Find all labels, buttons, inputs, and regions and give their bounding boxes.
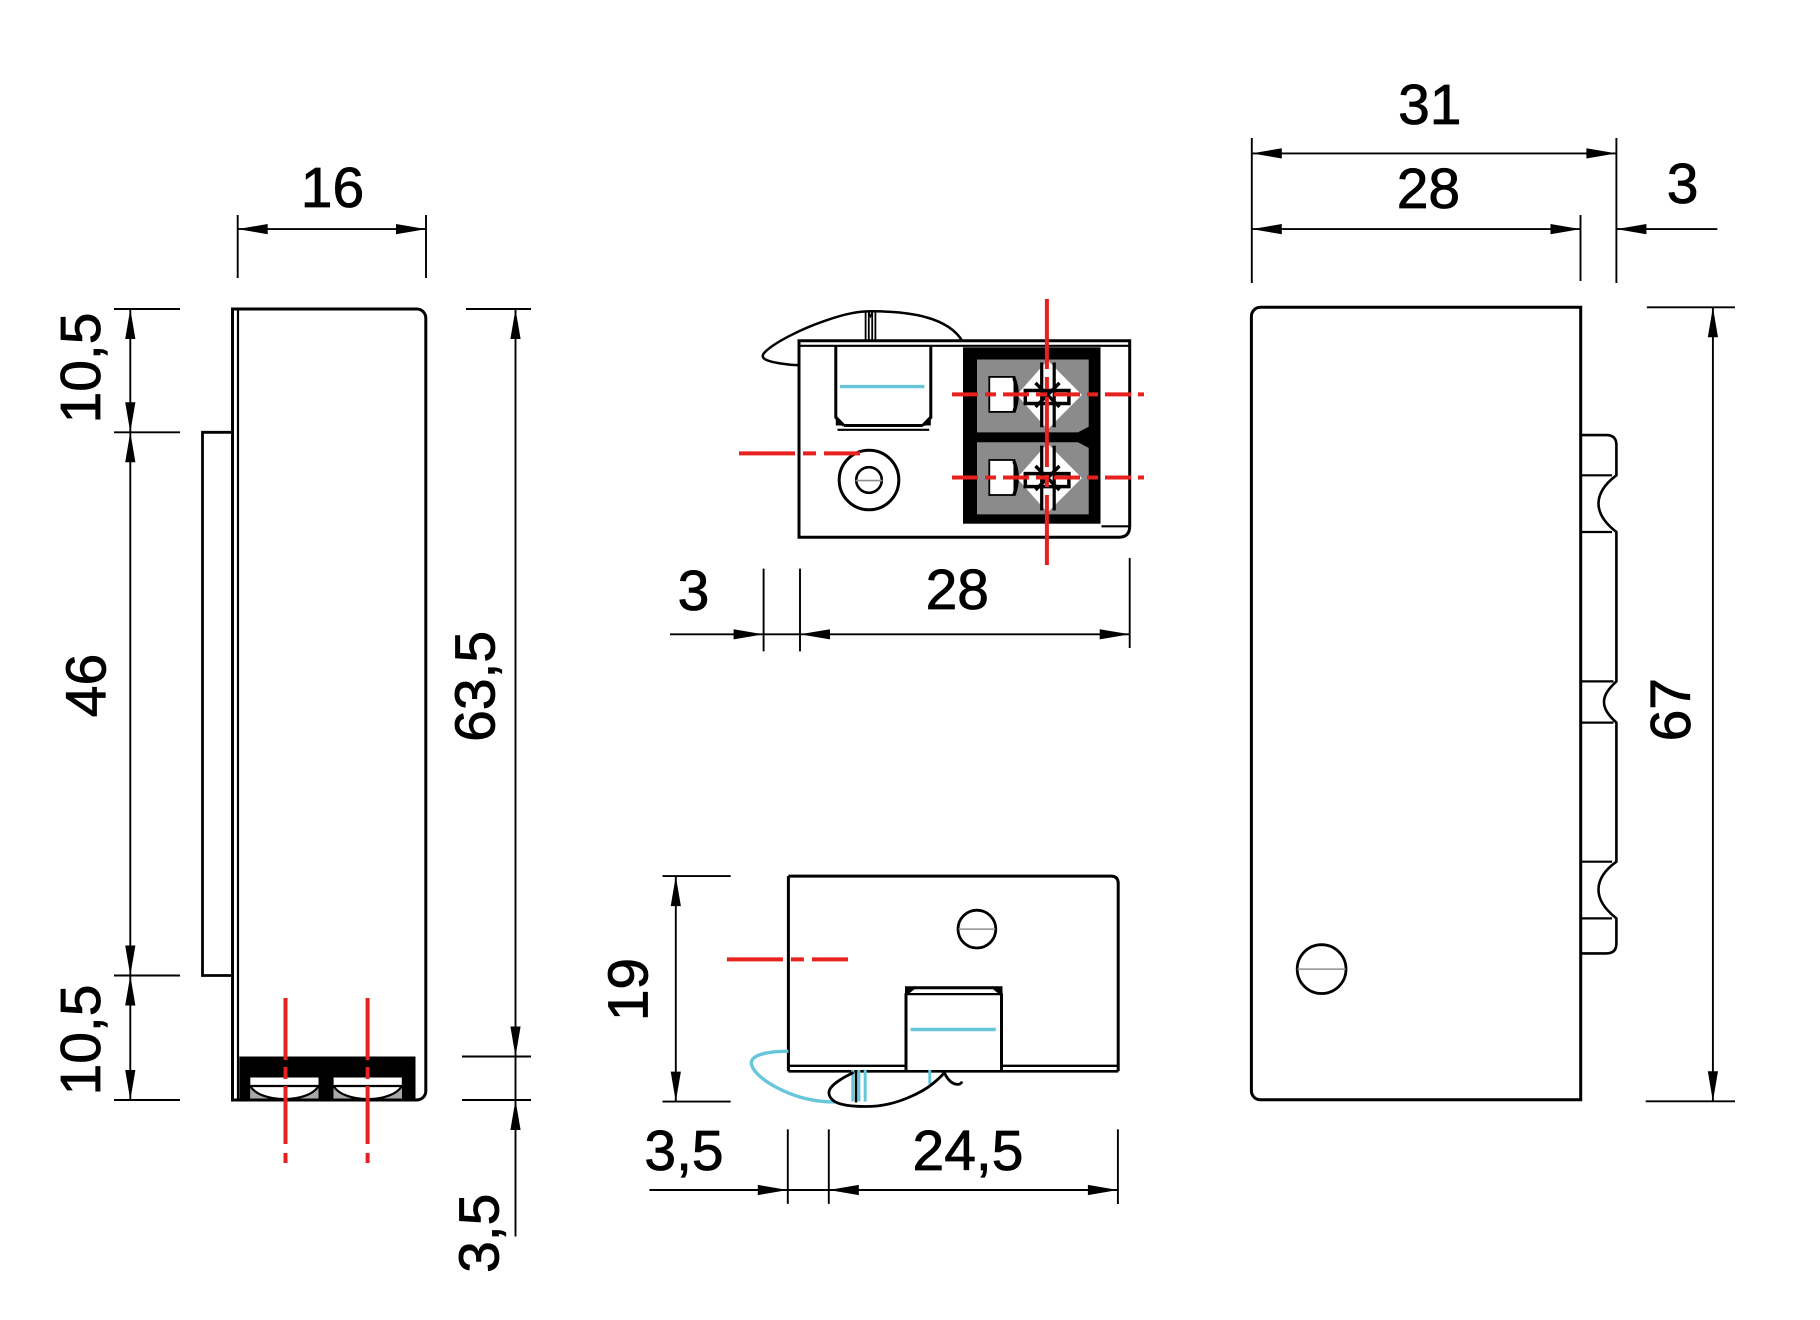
gasket pad (section fill) xyxy=(239,1057,415,1100)
dim 3,5 arrow xyxy=(758,1185,788,1195)
top view dim extension lines xyxy=(764,558,1130,651)
dim 67 line xyxy=(1712,307,1714,1101)
front screw circle xyxy=(1297,945,1346,994)
screw centerline 1 xyxy=(284,998,288,1163)
left dim arrows xyxy=(125,309,135,339)
screw window 1 xyxy=(250,1078,318,1100)
bottom view bottom edge upper line xyxy=(788,1065,1118,1067)
svg-text:28: 28 xyxy=(1397,157,1460,221)
lever end stub (cyan) xyxy=(928,1070,931,1084)
svg-text:24,5: 24,5 xyxy=(913,1119,1024,1183)
bottom dim extension lines xyxy=(788,1129,1118,1204)
top view body outline xyxy=(799,341,1130,538)
screw 2 tip arc xyxy=(334,1086,402,1099)
dim 31/28 extension lines xyxy=(1252,138,1617,283)
wire entry window 2 xyxy=(989,460,1014,495)
svg-text:46: 46 xyxy=(55,654,119,717)
fixing hole inner xyxy=(856,467,882,493)
dim 24,5 arrows xyxy=(829,1185,859,1195)
centerline (red) xyxy=(727,957,848,961)
screw centerline 2 xyxy=(366,998,370,1163)
compartment floor line xyxy=(1102,525,1130,527)
latch lever ear outline xyxy=(763,311,963,365)
front view body outline xyxy=(1251,307,1580,1100)
dim 63.5 line xyxy=(515,309,517,1237)
wire entry window 1 xyxy=(989,377,1014,412)
U cutout right wall xyxy=(923,346,931,426)
latch block left wall xyxy=(906,988,914,1072)
screw 1 slot vertical lines xyxy=(1042,363,1055,428)
dim 3 line xyxy=(1616,228,1717,230)
hole slot line xyxy=(856,480,883,482)
side view body outline xyxy=(233,309,426,1100)
svg-text:67: 67 xyxy=(1639,678,1703,741)
screw window 1 gray base xyxy=(250,1086,318,1099)
side view inner plate line xyxy=(237,311,239,1099)
lever spring coils (cyan) xyxy=(853,1070,865,1102)
dim 67 ticks xyxy=(1646,307,1735,1101)
screw 2 horizontal centerline (red) xyxy=(952,476,1144,480)
section centerline (red, left) xyxy=(739,451,860,455)
bottom dim line xyxy=(649,1189,1118,1191)
screw 1 tip arc xyxy=(250,1086,318,1099)
right dim ticks xyxy=(462,309,531,1100)
svg-text:31: 31 xyxy=(1398,73,1461,137)
U cutout bottom second line xyxy=(838,429,930,431)
screw circle xyxy=(958,910,996,948)
screws vertical centerline (red) xyxy=(1045,299,1049,573)
bottom view body outline xyxy=(788,876,1118,1071)
screw 2 slot rect xyxy=(1025,474,1069,487)
U cutout chamfer fills xyxy=(836,415,931,426)
screw 2 slot vertical lines xyxy=(1042,446,1055,511)
side view bottom edge redraw xyxy=(239,1099,417,1102)
svg-text:16: 16 xyxy=(301,156,364,220)
screw 1 cross xyxy=(1036,383,1060,407)
svg-text:3,5: 3,5 xyxy=(644,1119,723,1183)
dim 16 extension lines xyxy=(238,215,426,278)
terminal cage 1 xyxy=(977,360,1089,433)
lever loop inner curl xyxy=(944,1073,962,1085)
glass line (cyan) xyxy=(911,1028,996,1031)
dim 67 arrows xyxy=(1708,307,1718,337)
dim 19 arrows xyxy=(671,876,681,906)
dim 31 line xyxy=(1252,152,1617,154)
lever swoosh (cyan) xyxy=(751,1051,835,1102)
dim 63.5 / 3.5 arrows xyxy=(510,309,520,339)
latch block right wall xyxy=(994,988,1002,1072)
dim 16 line xyxy=(238,228,426,230)
screw window 1 top line xyxy=(250,1085,318,1087)
latch block top xyxy=(914,986,994,989)
svg-text:10,5: 10,5 xyxy=(49,313,113,424)
screw window 2 gray base xyxy=(334,1086,402,1099)
screw 1 slot rect xyxy=(1025,391,1069,404)
glass line (cyan) xyxy=(840,385,924,388)
bottom view bottom edge lower line xyxy=(788,1070,1118,1073)
dim 31 arrows xyxy=(1252,148,1282,158)
rubber strip outline xyxy=(1581,435,1617,953)
lever spring coil (black) xyxy=(855,1073,857,1103)
svg-text:19: 19 xyxy=(597,958,661,1021)
front screw slot line xyxy=(1298,968,1346,970)
strip divider lines xyxy=(1581,475,1614,918)
svg-text:63,5: 63,5 xyxy=(443,631,507,742)
U cutout left wall xyxy=(836,346,844,426)
svg-text:3: 3 xyxy=(1667,152,1699,216)
dim 3 arrow xyxy=(1616,224,1646,234)
svg-text:3,5: 3,5 xyxy=(447,1194,511,1273)
screw window 2 top line xyxy=(334,1085,402,1087)
screw 1 head (kite) xyxy=(1017,360,1082,429)
latch block inner top line xyxy=(906,993,1002,995)
dim 28 arrows xyxy=(800,629,830,639)
terminal block body xyxy=(963,347,1101,523)
dim 19 ticks xyxy=(663,876,731,1102)
terminal cage 2 xyxy=(977,442,1089,514)
lever loop outline xyxy=(829,1073,944,1107)
screw slot line xyxy=(959,928,996,930)
left dim line xyxy=(129,309,131,1100)
top view dim line xyxy=(670,633,1130,635)
dim 3 arrow xyxy=(734,629,764,639)
dim 28 arrows xyxy=(1252,224,1282,234)
screw 2 head arc xyxy=(1014,461,1017,495)
screw 2 cross xyxy=(1036,466,1060,490)
screw 2 head (kite) xyxy=(1017,443,1082,512)
svg-text:28: 28 xyxy=(926,558,989,622)
screw window 2 xyxy=(334,1078,402,1100)
screw 1 horizontal centerline (red) xyxy=(952,392,1144,396)
fixing hole outer xyxy=(839,450,899,510)
U cutout bottom xyxy=(844,424,923,427)
side view mounting step plate xyxy=(203,432,232,975)
svg-text:3: 3 xyxy=(678,559,710,623)
screw 1 head arc xyxy=(1014,378,1017,412)
dim 16 arrows xyxy=(238,224,426,234)
dim 19 line xyxy=(675,876,677,1102)
lever slot lines xyxy=(866,312,876,341)
dim 28 line xyxy=(1252,228,1581,230)
left dim ticks xyxy=(114,309,180,1100)
lever slot V notch xyxy=(869,312,872,317)
top view inner top line xyxy=(799,345,1130,347)
latch block chamfer fills xyxy=(905,986,1003,996)
svg-text:10,5: 10,5 xyxy=(49,985,113,1096)
